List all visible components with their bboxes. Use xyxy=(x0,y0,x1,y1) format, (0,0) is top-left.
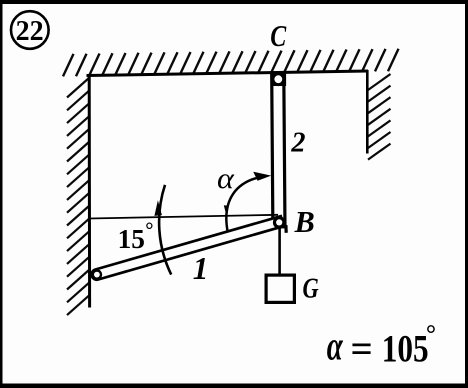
rod 2 xyxy=(272,73,285,227)
string from B to weight xyxy=(278,222,281,275)
svg-text:α: α xyxy=(327,322,344,368)
label 15 xyxy=(118,224,145,254)
svg-text:=: = xyxy=(351,328,373,371)
svg-text:105: 105 xyxy=(382,326,429,370)
horizontal reference line through B xyxy=(89,215,278,219)
degree sign of 15 xyxy=(145,220,153,242)
angle arc alpha xyxy=(226,176,265,232)
svg-text:°: ° xyxy=(426,319,436,348)
svg-text:C: C xyxy=(270,19,287,52)
right wall hatching xyxy=(368,74,391,160)
alpha arc arrowhead at rod 2 xyxy=(253,172,271,181)
pin B xyxy=(273,216,286,229)
svg-text:2: 2 xyxy=(290,127,305,158)
svg-text:22: 22 xyxy=(16,16,44,47)
right wall line xyxy=(366,70,369,154)
left wall hatching xyxy=(67,78,90,316)
label alpha at arc xyxy=(217,162,235,194)
ceiling hatching xyxy=(63,49,399,77)
15 degree arc xyxy=(159,185,171,275)
label 22 xyxy=(16,16,44,47)
pin at wall for rod 1 xyxy=(92,269,103,280)
label 2 xyxy=(290,127,305,158)
formula degree sign xyxy=(426,319,436,348)
svg-text:°: ° xyxy=(145,220,153,242)
alpha arc small arrow at horizontal line xyxy=(224,205,229,216)
formula alpha xyxy=(327,322,344,368)
formula 105 xyxy=(382,326,429,370)
15 degree arc arrowhead xyxy=(154,200,162,216)
svg-text:B: B xyxy=(294,205,315,239)
formula equals xyxy=(351,328,373,371)
label C xyxy=(270,19,287,52)
svg-text:G: G xyxy=(302,273,319,304)
label G xyxy=(302,273,319,304)
svg-text:α: α xyxy=(217,162,235,194)
weight box G xyxy=(266,275,294,302)
ceiling line xyxy=(87,71,369,76)
pin C xyxy=(271,73,287,86)
svg-text:15: 15 xyxy=(118,224,145,254)
problem number circle xyxy=(11,11,49,49)
rod 1 xyxy=(90,216,283,281)
left wall line xyxy=(88,75,91,308)
label B xyxy=(294,205,315,239)
svg-text:1: 1 xyxy=(193,251,209,286)
rod 2 lower right line stub below B xyxy=(284,225,288,233)
label 1 xyxy=(193,251,209,286)
